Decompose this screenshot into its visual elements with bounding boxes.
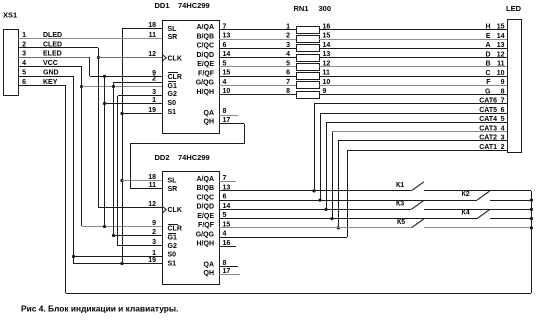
svg-text:A/QA: A/QA [197, 176, 215, 183]
svg-text:S1: S1 [168, 109, 177, 116]
svg-text:13: 13 [497, 42, 505, 49]
svg-text:3: 3 [152, 89, 156, 96]
svg-text:G: G [485, 88, 491, 95]
svg-text:D: D [485, 51, 490, 58]
svg-text:14: 14 [323, 42, 331, 49]
svg-text:G2: G2 [168, 91, 177, 98]
svg-text:F/QF: F/QF [198, 222, 215, 229]
svg-text:D/QD: D/QD [197, 52, 215, 59]
svg-text:15: 15 [497, 24, 505, 31]
svg-text:G/QG: G/QG [196, 231, 215, 238]
svg-text:4: 4 [286, 51, 290, 58]
svg-text:S0: S0 [168, 252, 177, 259]
svg-text:5: 5 [286, 60, 290, 67]
svg-text:DD1: DD1 [155, 1, 170, 10]
svg-text:QA: QA [204, 110, 215, 117]
svg-text:17: 17 [223, 268, 231, 275]
svg-text:12: 12 [323, 60, 331, 67]
svg-text:14: 14 [223, 203, 231, 210]
svg-text:XS1: XS1 [3, 11, 17, 20]
svg-text:7: 7 [223, 23, 227, 30]
svg-text:6: 6 [286, 70, 290, 77]
svg-text:15: 15 [323, 33, 331, 40]
svg-text:7: 7 [501, 98, 505, 105]
svg-text:15: 15 [223, 70, 231, 77]
svg-text:QH: QH [204, 270, 215, 277]
svg-text:CLK: CLK [168, 55, 182, 62]
svg-text:8: 8 [501, 88, 505, 95]
svg-text:S0: S0 [168, 100, 177, 107]
svg-text:G1: G1 [168, 235, 177, 242]
svg-text:KEY: KEY [43, 79, 58, 86]
svg-text:5: 5 [501, 116, 505, 123]
svg-text:2: 2 [501, 144, 505, 151]
svg-text:10: 10 [323, 79, 331, 86]
svg-text:E: E [486, 33, 491, 40]
svg-text:4: 4 [223, 231, 227, 238]
svg-text:19: 19 [148, 257, 156, 264]
svg-text:CAT4: CAT4 [479, 116, 497, 123]
svg-text:6: 6 [22, 79, 26, 86]
svg-text:Рис 4. Блок индикации и клавиа: Рис 4. Блок индикации и клавиатуры. [21, 304, 178, 314]
svg-text:B/QB: B/QB [197, 185, 215, 192]
svg-text:7: 7 [286, 79, 290, 86]
svg-text:SL: SL [168, 26, 178, 33]
svg-text:10: 10 [497, 70, 505, 77]
svg-text:11: 11 [149, 182, 157, 189]
svg-text:SR: SR [168, 186, 178, 193]
svg-text:3: 3 [286, 42, 290, 49]
svg-text:74HC299: 74HC299 [178, 1, 210, 10]
svg-text:14: 14 [497, 33, 505, 40]
svg-text:SR: SR [168, 34, 178, 41]
svg-text:CLR: CLR [168, 226, 182, 233]
svg-text:CAT3: CAT3 [479, 125, 497, 132]
svg-text:CAT2: CAT2 [479, 135, 497, 142]
svg-text:B: B [485, 61, 490, 68]
svg-text:9: 9 [323, 88, 327, 95]
svg-text:E/QE: E/QE [197, 61, 214, 68]
svg-text:3: 3 [152, 239, 156, 246]
svg-text:H: H [485, 24, 490, 31]
svg-text:1: 1 [152, 250, 156, 257]
svg-text:17: 17 [223, 117, 231, 124]
svg-text:G1: G1 [168, 83, 177, 90]
svg-text:2: 2 [152, 76, 156, 83]
svg-text:C/QC: C/QC [197, 194, 215, 201]
svg-text:E/QE: E/QE [197, 213, 214, 220]
svg-text:13: 13 [223, 33, 231, 40]
svg-text:VCC: VCC [43, 60, 58, 67]
svg-text:3: 3 [501, 135, 505, 142]
svg-text:4: 4 [22, 60, 26, 67]
svg-text:S1: S1 [168, 261, 177, 268]
svg-text:9: 9 [501, 79, 505, 86]
svg-text:К3: К3 [396, 200, 404, 207]
svg-text:8: 8 [223, 260, 227, 267]
svg-text:CAT5: CAT5 [479, 107, 497, 114]
svg-text:8: 8 [286, 88, 290, 95]
svg-text:DD2: DD2 [155, 153, 170, 162]
svg-text:A: A [485, 42, 490, 49]
svg-text:6: 6 [223, 42, 227, 49]
svg-text:GND: GND [43, 70, 59, 77]
svg-text:2: 2 [22, 41, 26, 48]
svg-text:16: 16 [323, 23, 331, 30]
svg-text:К2: К2 [462, 191, 470, 198]
svg-text:RN1: RN1 [294, 4, 309, 13]
svg-text:2: 2 [286, 33, 290, 40]
svg-text:3: 3 [22, 51, 26, 58]
svg-text:CLED: CLED [43, 41, 62, 48]
svg-text:18: 18 [148, 22, 156, 29]
svg-text:QA: QA [204, 262, 215, 269]
svg-text:К4: К4 [462, 210, 470, 217]
svg-text:C/QC: C/QC [197, 43, 215, 50]
svg-text:9: 9 [152, 220, 156, 227]
svg-text:12: 12 [497, 51, 505, 58]
svg-text:F/QF: F/QF [198, 70, 215, 77]
svg-text:1: 1 [152, 97, 156, 104]
svg-text:К1: К1 [396, 182, 404, 189]
svg-text:14: 14 [223, 51, 231, 58]
svg-text:2: 2 [152, 229, 156, 236]
svg-text:A/QA: A/QA [197, 24, 215, 31]
svg-text:19: 19 [148, 107, 156, 114]
svg-text:5: 5 [22, 70, 26, 77]
svg-text:4: 4 [501, 125, 505, 132]
svg-text:G2: G2 [168, 243, 177, 250]
svg-text:ELED: ELED [43, 51, 62, 58]
svg-text:1: 1 [286, 23, 290, 30]
svg-text:6: 6 [501, 107, 505, 114]
svg-text:LED: LED [506, 4, 522, 13]
svg-text:SL: SL [168, 178, 178, 185]
svg-text:К5: К5 [397, 219, 405, 226]
svg-text:C: C [485, 70, 490, 77]
svg-text:300: 300 [319, 4, 332, 13]
svg-text:CLK: CLK [168, 207, 182, 214]
svg-text:CAT1: CAT1 [479, 144, 497, 151]
svg-text:11: 11 [497, 61, 505, 68]
svg-text:5: 5 [223, 60, 227, 67]
svg-text:4: 4 [223, 79, 227, 86]
svg-text:12: 12 [148, 51, 156, 58]
svg-text:B/QB: B/QB [197, 33, 215, 40]
svg-text:13: 13 [323, 51, 331, 58]
svg-text:CAT6: CAT6 [479, 98, 497, 105]
svg-text:8: 8 [223, 108, 227, 115]
svg-text:11: 11 [323, 70, 331, 77]
svg-text:QH: QH [204, 118, 215, 125]
svg-text:G/QG: G/QG [196, 80, 215, 87]
svg-text:11: 11 [149, 32, 157, 39]
svg-text:18: 18 [148, 174, 156, 181]
svg-text:H/QH: H/QH [197, 89, 215, 96]
svg-text:F: F [486, 79, 491, 86]
svg-text:12: 12 [148, 201, 156, 208]
svg-text:74HC299: 74HC299 [178, 153, 210, 162]
svg-text:CLR: CLR [168, 74, 182, 81]
svg-text:H/QH: H/QH [197, 241, 215, 248]
svg-text:6: 6 [223, 194, 227, 201]
svg-text:16: 16 [223, 240, 231, 247]
svg-text:10: 10 [223, 88, 231, 95]
svg-text:D/QD: D/QD [197, 204, 215, 211]
